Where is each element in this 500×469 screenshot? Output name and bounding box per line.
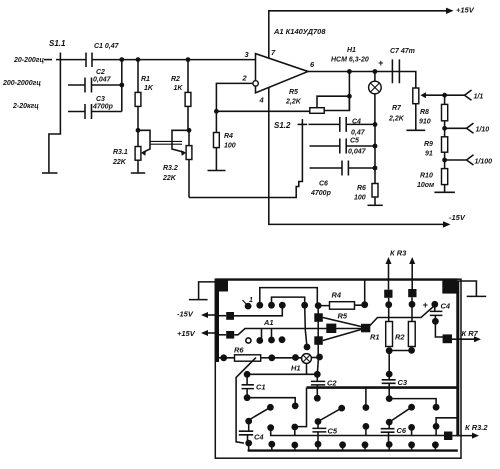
capacitor C3 pcb [386,371,393,378]
svg-text:200-2000гц: 200-2000гц [2,80,41,87]
wire S1.2 row C4 [309,123,340,125]
svg-text:S1.1: S1.1 [49,39,66,48]
svg-text:R5: R5 [289,89,298,96]
svg-text:20-200гц: 20-200гц [13,57,45,64]
svg-text:S1.2: S1.2 [274,121,291,130]
svg-text:1/100: 1/100 [475,159,493,166]
node junction wiper/feedback [347,94,352,99]
wire H1 bottom lead [306,363,308,374]
wire input line to pin 3 [122,59,256,61]
wire star to divider node [370,305,435,325]
node junction C1 bus [119,57,124,62]
wire R5 wiper [317,96,349,110]
node junction C6 bus [373,166,378,171]
svg-text:+15V: +15V [456,6,475,15]
ground R4 [208,170,226,172]
wire C1 bottom trace [247,398,295,406]
pcb corner pad top-left [217,281,228,292]
potentiometer R7 [413,88,419,104]
capacitor C2 [85,78,92,93]
svg-text:C3: C3 [96,96,105,103]
wire tap 1/100 [445,155,474,165]
svg-text:C4: C4 [254,433,264,442]
pcb corner pad top-right [442,279,456,293]
capacitor C5 pcb [315,418,322,425]
svg-text:R6: R6 [357,185,366,192]
wire capacitor bus [121,60,123,112]
pads row 427 [267,424,274,431]
wire thick trace mid [307,386,458,389]
wire +15V trace [234,329,361,335]
wire pin 2 input [216,83,253,111]
svg-text:R5: R5 [338,312,348,321]
resistor R8 [442,104,448,120]
svg-text:C6: C6 [319,181,328,188]
wire diagonal cell1 [247,407,270,421]
capacitor C1 pcb [244,371,251,378]
svg-text:2,2K: 2,2K [388,116,405,123]
lamp H1 [374,72,376,82]
wire S1.2 row C5 [310,145,340,147]
wire tap 1/1 [445,90,472,100]
ground [42,172,58,174]
wire fan diagonal 1 [323,318,361,327]
svg-text:C5: C5 [350,138,359,145]
svg-text:R1: R1 [141,76,150,83]
wire diagonal cell2 [318,408,342,421]
wire tap 1/10 [445,123,474,133]
svg-text:4700p: 4700p [310,190,332,197]
wire contact row1 [56,59,86,61]
ic A1 pin1 mark [243,300,248,305]
wire C6 to bus [348,167,375,169]
pcb edge trace left [215,280,219,362]
wire trace C1top-C2top [247,373,317,375]
potentiometer R3.1 [137,130,139,173]
wire contact row2 [68,84,85,86]
node junction R2 top [186,57,191,62]
svg-text:22K: 22K [112,159,127,166]
node junction R1/R3.1 [136,128,141,133]
resistor R4 [215,111,217,170]
svg-text:100: 100 [224,143,236,150]
svg-text:C1: C1 [256,383,266,392]
svg-text:R3.1: R3.1 [113,149,128,156]
resistor R2 outline [408,322,415,347]
svg-text:C6: C6 [397,426,407,435]
node junction R1 top [136,57,141,62]
svg-text:H1: H1 [347,47,356,54]
svg-text:R7: R7 [392,105,402,112]
resistor R6 [372,184,378,198]
svg-text:910: 910 [419,119,431,126]
svg-text:4700p: 4700p [92,104,114,111]
svg-text:C1 0,47: C1 0,47 [94,43,120,50]
node junction tap 1/1 [442,93,447,98]
capacitor C4 [340,117,346,132]
wire ganged link R3.1-R3.2 [150,141,182,144]
ground divider [434,191,455,193]
wire lamp bus [374,124,376,183]
svg-text:R2: R2 [171,76,180,83]
svg-text:100: 100 [354,195,366,202]
svg-text:C2: C2 [96,69,105,76]
svg-text:R1: R1 [370,333,380,342]
node junction C4 bus [373,122,378,127]
pad KR7 square [443,334,452,343]
svg-text:4: 4 [259,96,265,105]
svg-text:К R3: К R3 [390,249,407,258]
resistor R9 [442,137,448,152]
resistor R5 [310,108,324,114]
pad star node [361,324,370,333]
svg-text:0,47: 0,47 [351,130,366,137]
svg-text:-15V: -15V [177,310,194,319]
capacitor C1 [86,53,92,68]
wire -15V trace [234,305,282,316]
capacitor C5 [340,139,346,154]
wire R6 diagonal [236,358,256,444]
ic A1 pads bottom row [256,337,263,344]
node junction C2 bus [119,83,124,88]
wire divider [444,95,446,192]
op-amp A1 [256,54,309,93]
svg-text:К R3.2: К R3.2 [465,423,488,432]
svg-text:+: + [423,300,429,310]
capacitor C6 [342,161,348,176]
ground R6 [368,204,383,206]
svg-text:C4: C4 [441,302,451,311]
resistor R1 [137,60,139,131]
node junction lamp tap [373,69,378,74]
wire pin2 node to R5 [216,110,309,112]
wire C2 to bus [92,84,122,86]
node junction tap 1/10 [442,126,447,131]
node junction pin2/R4/R5 [214,109,219,114]
resistor R6 pcb [220,354,227,361]
node junction C5 bus [373,144,378,149]
wire bottom thick trace [248,449,458,451]
wire R1 R2 bottom [386,347,393,354]
wire -15V rail [269,87,443,224]
pcb board outline [215,279,461,458]
svg-text:R4: R4 [332,291,342,300]
svg-text:НСМ 6,3-20: НСМ 6,3-20 [331,57,369,64]
wire C3 bottom trace [389,399,436,408]
wire fan diagonal 2 [323,330,361,341]
svg-text:2: 2 [242,74,248,83]
pad square upper [314,313,323,322]
ground chassis top-right [457,281,487,296]
node junction tap 1/100 [442,158,447,163]
wire L to edge [436,418,458,427]
svg-text:2,2K: 2,2K [285,99,302,106]
wire C1 to bus [92,59,122,61]
wire KR3 arrows [389,261,413,290]
svg-text:1/1: 1/1 [474,94,484,101]
lamp H1 pcb [302,354,312,364]
ground chassis top-left [189,282,215,300]
svg-text:+15V: +15V [177,329,196,338]
wire C3 to bus [92,111,122,113]
potentiometer R3.2 [188,130,190,197]
switch S1.1 pole [49,53,61,173]
svg-text:C3: C3 [398,378,408,387]
resistor R10 [442,169,448,185]
ic A1 pads top row [245,303,252,310]
svg-text:1K: 1K [144,85,154,92]
pad KR3 squares [384,290,392,298]
svg-text:2-20кгц: 2-20кгц [12,103,39,110]
wire KR3.2 arrow [452,435,475,437]
pcb edge trace right [456,281,459,437]
svg-text:C7 47m: C7 47m [390,48,415,55]
wire KR7 arrow [452,338,477,340]
ground R7 [406,129,425,131]
svg-text:R6: R6 [234,346,244,355]
svg-text:10ом: 10ом [417,182,435,189]
wire H1 row [268,354,275,361]
resistor R1 outline [386,322,393,347]
node junction R2/R3.2 [187,128,192,133]
svg-text:1K: 1K [174,85,184,92]
svg-text:A1: A1 [263,318,274,327]
svg-text:R4: R4 [224,133,233,140]
capacitor C4 pcb left [245,418,252,425]
wire S1.1 wiper dash [44,59,52,61]
pads bottom row [268,441,275,448]
svg-text:R9: R9 [424,141,433,148]
wire C4 to bus [346,123,375,125]
pcb edge trace top [216,278,457,280]
svg-text:C2: C2 [327,379,337,388]
wire +15V rail [269,11,446,58]
svg-text:+: + [378,58,384,68]
node junction feedback tap [347,69,352,74]
svg-text:R8: R8 [420,109,429,116]
wire trace pad2 to R4 pad [260,288,318,306]
capacitor C2 pcb [314,371,321,378]
svg-text:A1 К140УД708: A1 К140УД708 [273,27,326,36]
wire output line [308,72,416,89]
resistor R2 [187,60,189,131]
svg-text:91: 91 [425,151,433,158]
resistor R4 outline [330,302,355,310]
wire S1.2 row C6 [310,167,343,169]
wire vertical R4pad chain [317,306,319,358]
ground R3.1 [131,172,145,174]
capacitor C4 electrolytic [431,301,438,308]
wire KR3.2 trace [271,431,444,436]
wire vertical to C2 [317,357,318,374]
svg-text:R3.2: R3.2 [163,165,178,172]
svg-text:R10: R10 [420,173,433,180]
svg-text:0,047: 0,047 [93,77,112,84]
pad square middle [326,324,336,333]
capacitor C6 pcb [386,419,393,426]
svg-text:1: 1 [249,297,253,304]
svg-text:0,047: 0,047 [348,149,367,156]
pad KR3.2 square [444,432,452,441]
wire contact row3 [68,111,85,113]
svg-text:H1: H1 [291,364,301,373]
wire diagonal cell3 [389,407,411,422]
capacitor C3 [85,104,92,119]
svg-text:1/10: 1/10 [476,127,490,134]
wire R1 R2 top stubs [389,304,412,321]
wire C5 to bus [346,145,375,147]
svg-text:-15V: -15V [449,213,466,222]
wire trace pad3 to pad5 [272,297,305,305]
hole unconnected [246,338,251,343]
pad square lower [314,336,323,345]
pads middle row [267,404,274,411]
svg-text:C5: C5 [328,427,338,436]
wire trace pad5 to H1 top [305,305,307,347]
svg-text:22K: 22K [162,175,177,182]
svg-text:R2: R2 [395,333,405,342]
svg-text:К R7: К R7 [462,329,479,338]
